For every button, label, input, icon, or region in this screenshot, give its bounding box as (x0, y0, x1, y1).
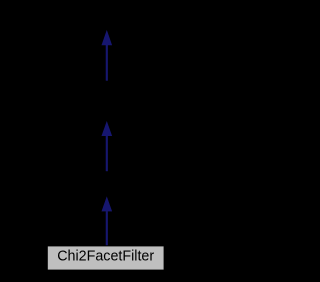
wire inheritance edge 2 (middle) (102, 121, 113, 171)
inheritance diagram for Chi2FacetFilter (0, 0, 213, 277)
node Chi2FacetFilter box (47, 246, 164, 271)
wire inheritance edge 1 (top) (102, 30, 113, 81)
wire inheritance edge 3 (bottom) (102, 196, 113, 245)
border frame (1, 1, 213, 277)
svg-text:Chi2FacetFilter: Chi2FacetFilter (57, 249, 154, 265)
